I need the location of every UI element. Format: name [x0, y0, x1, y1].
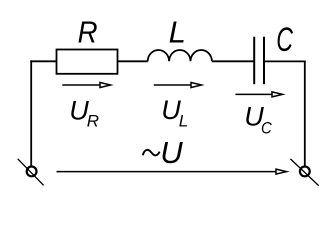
wire: inductor to capacitor [212, 60, 254, 62]
svg-text:L: L [169, 14, 186, 49]
label U_L [161, 95, 188, 130]
arrow: voltage U_R under resistor [62, 83, 110, 88]
svg-text:R: R [78, 15, 98, 50]
svg-text:C: C [261, 120, 272, 138]
capacitor C plate right [263, 37, 265, 84]
arrow: voltage U_L under inductor [154, 83, 202, 88]
wire: top-left horizontal from left branch to resistor [30, 60, 56, 62]
resistor R [57, 50, 118, 74]
terminal right (circle with slash) [290, 159, 318, 186]
svg-text:U: U [160, 135, 183, 170]
wire: left vertical branch [30, 60, 32, 166]
svg-text:C: C [276, 20, 293, 59]
wire: capacitor to top-right corner [264, 60, 306, 62]
label U_C [244, 102, 272, 138]
svg-text:L: L [179, 112, 188, 131]
arrow: source voltage between terminals [57, 169, 287, 174]
arrow: voltage U_C under capacitor [235, 92, 282, 97]
svg-text:R: R [87, 112, 99, 131]
label ~U source [143, 135, 184, 170]
wire: right vertical branch [304, 61, 306, 167]
wire: resistor to inductor [118, 60, 148, 62]
capacitor C plate left [253, 37, 255, 84]
inductor L [148, 50, 212, 61]
terminal left (circle with slash) [18, 159, 44, 186]
label U_R [69, 96, 99, 131]
